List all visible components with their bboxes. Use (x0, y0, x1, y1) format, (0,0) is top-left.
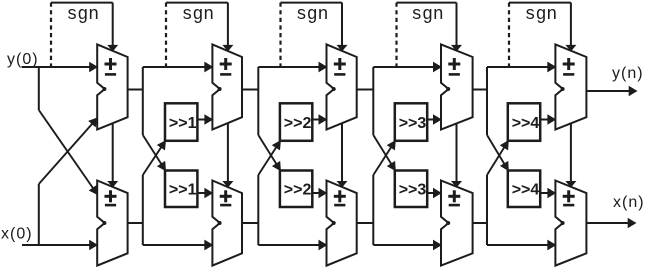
svg-text:y(n): y(n) (612, 65, 644, 82)
svg-text:>>2: >>2 (284, 182, 312, 199)
svg-text:>>4: >>4 (512, 182, 540, 199)
svg-text:>>4: >>4 (512, 115, 540, 132)
svg-text:y(0): y(0) (7, 51, 39, 68)
svg-text:>>3: >>3 (399, 115, 427, 132)
svg-text:sgn: sgn (296, 5, 328, 25)
svg-text:sgn: sgn (411, 5, 443, 25)
svg-text:x(n): x(n) (613, 194, 645, 211)
svg-text:>>3: >>3 (399, 182, 427, 199)
svg-text:>>2: >>2 (284, 115, 312, 132)
svg-text:>>1: >>1 (169, 115, 197, 132)
svg-text:sgn: sgn (67, 5, 99, 25)
svg-text:sgn: sgn (525, 5, 557, 25)
svg-text:x(0): x(0) (1, 226, 33, 243)
svg-text:sgn: sgn (182, 5, 214, 25)
svg-text:>>1: >>1 (169, 182, 197, 199)
